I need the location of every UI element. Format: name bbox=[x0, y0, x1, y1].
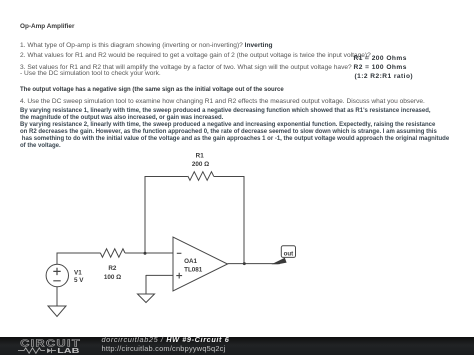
svg-text:200 Ω: 200 Ω bbox=[192, 161, 209, 168]
svg-text:LAB: LAB bbox=[57, 346, 80, 354]
svg-text:R2: R2 bbox=[108, 265, 117, 272]
svg-text:100 Ω: 100 Ω bbox=[104, 274, 121, 281]
svg-text:OA1: OA1 bbox=[184, 258, 197, 265]
svg-text:5 V: 5 V bbox=[74, 277, 84, 284]
svg-text:R1: R1 bbox=[196, 153, 205, 160]
svg-text:TL081: TL081 bbox=[184, 266, 203, 273]
svg-text:out: out bbox=[284, 250, 294, 257]
svg-text:V1: V1 bbox=[74, 269, 82, 276]
